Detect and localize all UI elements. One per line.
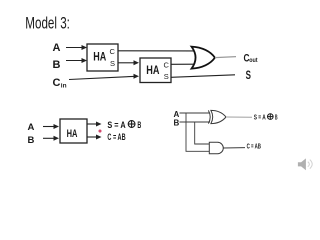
svg-text:out: out [249,58,257,64]
svg-text:HA: HA [67,128,78,140]
svg-text:A: A [28,122,35,133]
svg-text:C = AB: C = AB [107,132,126,142]
svg-text:S: S [110,59,115,68]
svg-text:C = AB: C = AB [247,144,261,151]
svg-text:B: B [53,59,61,71]
svg-text:A: A [53,42,61,54]
svg-text:HA: HA [146,65,159,77]
svg-text:C: C [110,47,116,56]
svg-text:S = A: S = A [107,120,125,131]
svg-text:HA: HA [93,51,106,63]
svg-text:S: S [246,70,252,82]
svg-text:B: B [174,118,180,127]
svg-text:Model 3:: Model 3: [25,14,70,33]
svg-text:B: B [275,114,278,121]
svg-text:B: B [137,120,141,131]
svg-text:B: B [28,135,35,146]
svg-text:S: S [164,72,169,81]
svg-text:in: in [61,83,67,90]
svg-text:S = A: S = A [254,114,266,121]
svg-text:C: C [53,77,61,89]
svg-text:C: C [164,61,170,70]
